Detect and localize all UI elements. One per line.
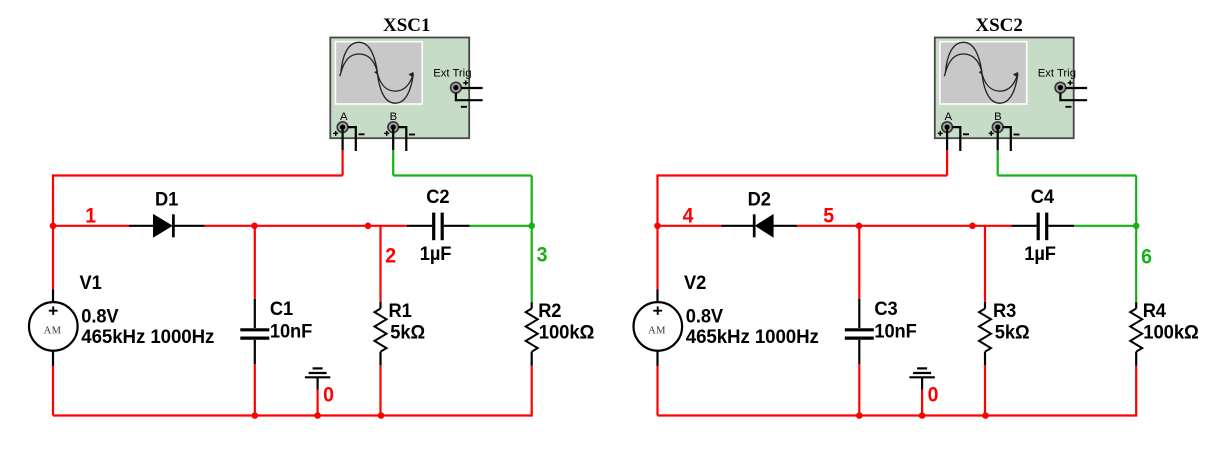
junction bottom rail at C3 — [856, 412, 863, 419]
svg-text:4: 4 — [683, 205, 695, 228]
capacitor C3 top plate — [845, 328, 874, 331]
XSC2 screen — [941, 43, 1026, 104]
diode D1 cathode lead — [173, 225, 204, 227]
XSC1 B plus mark — [384, 131, 389, 136]
XSC1 A minus mark — [359, 133, 365, 135]
resistor R3 top lead — [984, 302, 986, 309]
svg-text:1µF: 1µF — [420, 244, 452, 266]
svg-text:R3: R3 — [993, 301, 1016, 323]
svg-text:V1: V1 — [80, 273, 103, 295]
svg-text:D1: D1 — [155, 189, 179, 211]
capacitor C1 bottom lead — [254, 340, 256, 364]
wire C3 branch upper — [858, 226, 860, 299]
XSC2 Ext Trig minus stub — [1060, 93, 1087, 100]
svg-text:2: 2 — [385, 245, 396, 268]
capacitor C4 right plate — [1045, 213, 1048, 241]
capacitor C3 top lead — [858, 299, 860, 328]
wire node 6 rail to R4 — [1135, 226, 1137, 302]
wire top horizontal from scope B to node 3 rail — [393, 174, 532, 176]
wire node 6 rail upper — [1135, 176, 1137, 226]
XSC2 B pin lead — [997, 129, 999, 150]
AM source V1 plus sign — [49, 306, 58, 315]
junction node 1 at left rail — [50, 223, 57, 230]
XSC1 A minus stub — [348, 127, 356, 151]
wire R4 branch lower — [1135, 366, 1137, 417]
svg-text:100kΩ: 100kΩ — [539, 322, 595, 344]
XSC1 Ext Trig minus mark — [461, 106, 467, 108]
capacitor C1 top plate — [240, 328, 269, 331]
wire ground branch — [317, 390, 319, 416]
svg-text:Ext Trig: Ext Trig — [433, 68, 471, 80]
wire R3 branch upper (node 5) — [984, 226, 986, 302]
wire top horizontal from scope B to node 6 rail — [998, 174, 1136, 176]
junction bottom rail at C1 — [252, 412, 259, 419]
junction node 2 at C1 branch — [251, 223, 258, 230]
XSC2 Ext Trig pin — [1055, 82, 1066, 93]
wire R1 branch lower — [379, 365, 381, 417]
svg-text:3: 3 — [537, 244, 548, 267]
wire bottom rail — [53, 414, 532, 416]
resistor R1 zigzag — [375, 309, 387, 352]
XSC2 B minus mark — [1014, 134, 1020, 136]
resistor R3 zigzag — [979, 309, 991, 352]
svg-text:1µF: 1µF — [1024, 244, 1056, 266]
wire bottom rail — [658, 414, 1137, 416]
XSC1 A wire to circuit — [342, 150, 344, 175]
svg-text:6: 6 — [1141, 246, 1152, 269]
resistor R4 zigzag — [1130, 309, 1142, 352]
junction node 4 at left rail — [654, 223, 661, 230]
XSC2 Ext Trig minus mark — [1065, 106, 1071, 108]
XSC2 screen frame — [939, 41, 1027, 105]
svg-text:D2: D2 — [748, 189, 771, 211]
XSC2 A minus mark — [963, 133, 969, 135]
resistor R2 zigzag — [526, 309, 538, 352]
XSC1 screen waveform — [340, 42, 414, 103]
junction node 5 at C3 branch — [856, 223, 863, 230]
wire source V2 top lead — [656, 290, 658, 303]
junction node 3 — [528, 223, 535, 230]
wire C3 branch lower — [858, 364, 860, 415]
XSC1 B wire to circuit — [392, 150, 394, 175]
wire main horizontal node 4 segment — [656, 225, 721, 227]
XSC1 Ext Trig pin — [451, 82, 462, 93]
svg-text:0.8V: 0.8V — [686, 306, 724, 328]
svg-text:C1: C1 — [270, 299, 294, 321]
wire main horizontal node 5 segment — [797, 225, 1012, 227]
capacitor C4 left lead — [1012, 225, 1037, 227]
resistor R4 bottom lead — [1135, 352, 1137, 366]
wire left rail vertical (node 1) — [52, 174, 54, 289]
svg-text:10nF: 10nF — [270, 321, 312, 343]
XSC1 screen — [336, 43, 421, 104]
capacitor C4 right lead — [1048, 225, 1074, 227]
oscilloscope XSC2 body — [935, 38, 1074, 139]
svg-text:0: 0 — [323, 384, 334, 407]
wire source V1 bottom to rail — [52, 366, 54, 416]
wire R1 branch upper (node 2) — [379, 226, 381, 302]
junction bottom rail at R3 — [982, 412, 989, 419]
XSC1 pin A — [337, 122, 348, 133]
junction node 5 mid — [969, 223, 976, 230]
wire C1 branch lower — [254, 364, 256, 415]
svg-text:5: 5 — [823, 205, 834, 228]
XSC1 Ext Trig plus stub — [461, 87, 482, 89]
XSC2 Ext Trig plus stub — [1066, 87, 1087, 89]
resistor R2 top lead — [531, 302, 533, 308]
capacitor C4 left plate — [1037, 213, 1040, 241]
wire source V2 bottom to rail — [656, 366, 658, 416]
wire source V2 bottom lead — [656, 350, 658, 366]
svg-text:465kHz 1000Hz: 465kHz 1000Hz — [686, 327, 819, 349]
diode D1 anode lead — [129, 225, 154, 227]
wire C1 branch upper — [254, 226, 256, 299]
XSC1 screen frame — [335, 41, 423, 105]
svg-text:10nF: 10nF — [874, 321, 916, 343]
XSC1 B minus stub — [399, 127, 407, 151]
diode D2 triangle — [755, 214, 774, 238]
XSC2 B wire to circuit — [997, 150, 999, 175]
XSC2 A minus stub — [953, 127, 961, 151]
XSC2 A wire to circuit — [946, 150, 948, 175]
wire R2 branch lower — [531, 366, 533, 417]
resistor R1 top lead — [379, 302, 381, 309]
junction bottom rail at ground — [314, 412, 321, 419]
capacitor C2 right lead — [444, 225, 470, 227]
diode D2 cathode bar — [753, 214, 756, 237]
capacitor C3 bottom plate — [845, 337, 874, 340]
svg-text:XSC2: XSC2 — [975, 15, 1023, 36]
junction node 6 — [1133, 223, 1140, 230]
XSC1 pin B — [388, 122, 399, 133]
svg-text:AM: AM — [44, 325, 62, 336]
XSC1 Ext Trig minus stub — [456, 93, 483, 100]
capacitor C2 left plate — [432, 213, 435, 241]
XSC1 A pin lead — [342, 129, 344, 150]
svg-text:C4: C4 — [1031, 186, 1055, 208]
XSC1 B pin lead — [392, 129, 394, 150]
junction node 2 mid — [365, 223, 372, 230]
resistor R4 top lead — [1135, 302, 1137, 308]
resistor R2 bottom lead — [531, 352, 533, 366]
wire main horizontal node 1 segment — [52, 225, 129, 227]
wire ground branch — [921, 390, 923, 416]
svg-text:C3: C3 — [874, 299, 897, 321]
capacitor C3 bottom lead — [858, 340, 860, 364]
svg-text:R4: R4 — [1143, 301, 1167, 323]
junction bottom rail at ground — [919, 412, 926, 419]
diode D1 triangle — [153, 214, 173, 238]
XSC1 A plus mark — [333, 131, 338, 136]
svg-text:1: 1 — [85, 205, 96, 228]
XSC2 pin A — [942, 122, 953, 133]
capacitor C2 left lead — [407, 225, 432, 227]
XSC1 Ext Trig plus mark — [463, 80, 468, 85]
AM source V2 circle — [634, 302, 683, 351]
XSC2 B minus stub — [1003, 127, 1011, 151]
oscilloscope XSC1 body — [330, 38, 469, 139]
svg-text:5kΩ: 5kΩ — [995, 322, 1030, 344]
wire C4 to node 6 — [1074, 225, 1136, 227]
capacitor C2 right plate — [441, 213, 444, 241]
XSC2 pin B — [992, 122, 1003, 133]
wire source V1 bottom lead — [52, 350, 54, 366]
XSC2 A plus mark — [938, 131, 943, 136]
capacitor C1 bottom plate — [240, 337, 269, 340]
svg-text:XSC1: XSC1 — [383, 15, 431, 36]
diode D2 anode lead — [774, 225, 797, 227]
AM source V2 plus sign — [653, 306, 662, 315]
wire C2 to node 3 — [470, 225, 532, 227]
svg-text:5kΩ: 5kΩ — [390, 322, 425, 344]
wire left rail vertical (node 4) — [656, 174, 658, 289]
junction bottom rail at R1 — [378, 412, 385, 419]
resistor R3 bottom lead — [984, 352, 986, 365]
resistor R1 bottom lead — [379, 352, 381, 365]
XSC2 screen waveform — [944, 42, 1018, 103]
svg-text:C2: C2 — [426, 186, 449, 208]
svg-text:R2: R2 — [538, 301, 561, 323]
diode D1 cathode bar — [172, 214, 175, 237]
wire main horizontal node 2 segment — [205, 225, 408, 227]
capacitor C1 top lead — [254, 299, 256, 328]
wire top horizontal from node 4 rail to scope A — [658, 174, 948, 176]
wire node 3 rail upper — [531, 176, 533, 226]
XSC2 A pin lead — [946, 129, 948, 150]
XSC1 B minus mark — [409, 134, 415, 136]
ground symbol — [305, 368, 330, 389]
ground symbol — [909, 368, 934, 389]
svg-text:AM: AM — [648, 325, 666, 336]
wire top horizontal from node 1 rail to scope A — [53, 174, 343, 176]
svg-text:V2: V2 — [684, 273, 706, 295]
diode D2 cathode lead — [721, 225, 754, 227]
wire R3 branch lower — [984, 365, 986, 417]
svg-text:R1: R1 — [389, 301, 413, 323]
svg-text:100kΩ: 100kΩ — [1143, 322, 1199, 344]
wire node 3 rail to R2 — [531, 226, 533, 302]
svg-text:0: 0 — [928, 384, 939, 407]
AM source V1 circle — [29, 302, 78, 351]
svg-text:Ext Trig: Ext Trig — [1038, 68, 1076, 80]
XSC2 B plus mark — [989, 131, 994, 136]
XSC2 Ext Trig plus mark — [1068, 80, 1073, 85]
wire source V1 top lead — [52, 290, 54, 303]
svg-text:0.8V: 0.8V — [81, 306, 119, 328]
svg-text:465kHz 1000Hz: 465kHz 1000Hz — [81, 327, 214, 349]
